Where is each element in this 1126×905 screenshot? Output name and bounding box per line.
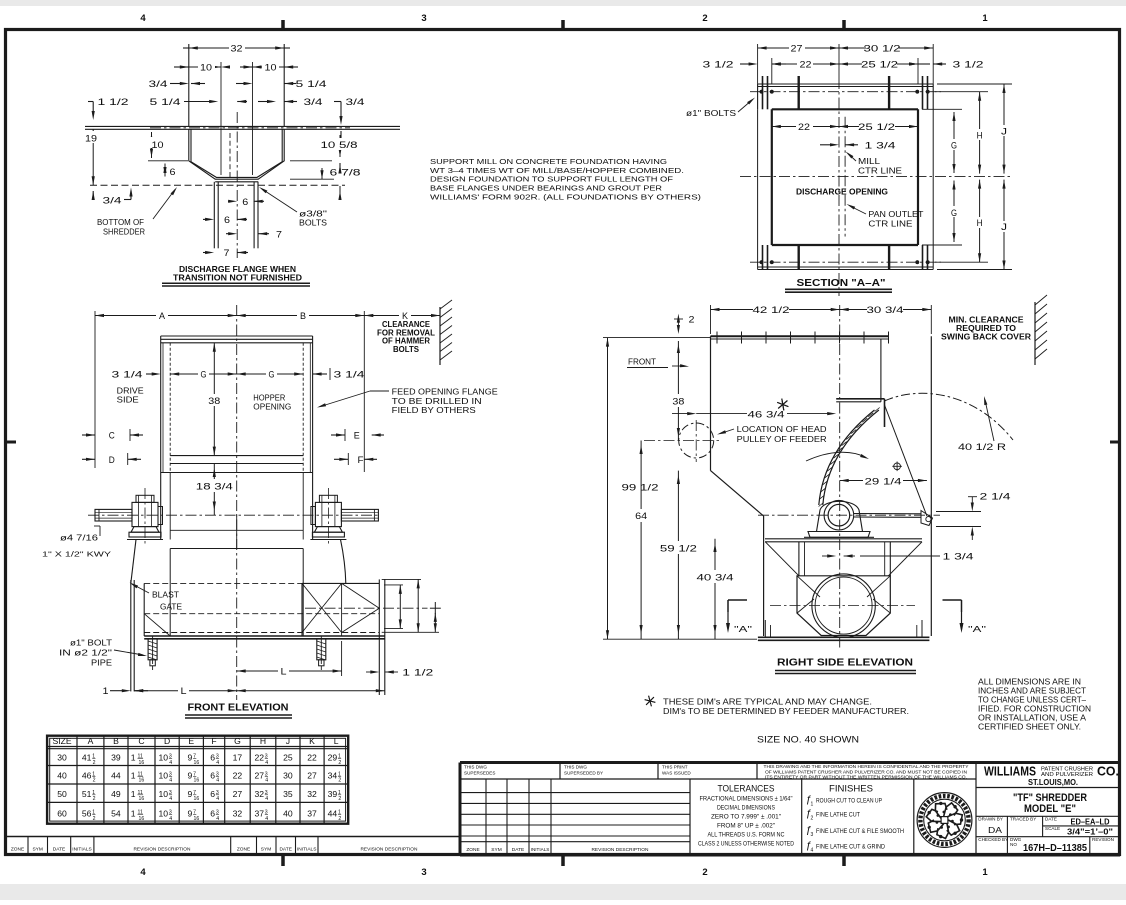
svg-text:SECTION "A–A": SECTION "A–A" [797,278,886,289]
svg-text:27: 27 [307,770,317,780]
svg-text:SCALE: SCALE [1045,826,1060,831]
svg-text:DATE: DATE [512,847,524,853]
svg-text:"A": "A" [968,624,986,634]
svg-text:HOPPER: HOPPER [253,394,285,403]
svg-text:J: J [1001,222,1007,232]
svg-text:SUPERSEDED BY: SUPERSEDED BY [564,770,603,775]
svg-text:MILL: MILL [858,157,881,166]
svg-text:CO.: CO. [1097,763,1119,778]
svg-text:A: A [159,311,165,321]
svg-text:3: 3 [421,13,426,24]
svg-text:BOTTOM OF: BOTTOM OF [97,217,144,227]
svg-text:AND PULVERIZER: AND PULVERIZER [1041,772,1093,778]
svg-text:29 1/4: 29 1/4 [865,476,902,486]
svg-text:37: 37 [307,809,317,819]
svg-text:39: 39 [111,753,121,763]
svg-text:H: H [977,218,983,228]
svg-text:10: 10 [200,63,212,73]
svg-text:4: 4 [140,13,146,24]
svg-text:3/4: 3/4 [149,79,168,89]
svg-text:FINE LATHE CUT & FILE SMOOTH: FINE LATHE CUT & FILE SMOOTH [816,829,904,835]
svg-text:REVISION: REVISION [1092,837,1114,842]
svg-text:1: 1 [103,686,109,696]
svg-text:C: C [138,736,144,746]
svg-text:4: 4 [169,816,172,822]
svg-text:ZONE: ZONE [11,847,24,853]
svg-text:GATE: GATE [160,603,183,612]
svg-text:D: D [164,736,170,746]
svg-text:10: 10 [159,789,169,799]
svg-text:FIELD BY OTHERS: FIELD BY OTHERS [392,406,477,415]
svg-text:G: G [951,208,957,218]
svg-text:C: C [109,431,115,441]
svg-text:B: B [300,311,306,321]
svg-text:L: L [281,667,287,677]
svg-text:REVISION DESCRIPTION: REVISION DESCRIPTION [133,847,191,853]
svg-text:3/4"=1’–0": 3/4"=1’–0" [1067,826,1113,836]
svg-text:38: 38 [208,396,220,406]
svg-text:54: 54 [111,809,121,819]
svg-text:DATE: DATE [53,847,65,853]
svg-text:27: 27 [233,789,243,799]
svg-text:THIS DRAWING AND THE INFORMATI: THIS DRAWING AND THE INFORMATION HEREIN … [764,764,969,769]
svg-text:2: 2 [338,778,341,784]
svg-text:22: 22 [307,753,317,763]
svg-text:SYM: SYM [261,847,271,853]
svg-text:16: 16 [139,816,145,822]
svg-text:FINE LATHE CUT: FINE LATHE CUT [816,813,860,819]
svg-text:49: 49 [111,789,121,799]
svg-text:DATE: DATE [279,847,291,853]
svg-text:42 1/2: 42 1/2 [753,305,790,315]
svg-text:44: 44 [328,809,338,819]
svg-text:41: 41 [82,753,92,763]
svg-text:2: 2 [338,816,341,822]
svg-text:4: 4 [265,778,268,784]
svg-text:3: 3 [811,832,814,838]
svg-text:LOCATION OF HEAD: LOCATION OF HEAD [737,424,827,434]
svg-text:G: G [951,141,957,151]
svg-text:6: 6 [210,770,215,780]
svg-text:64: 64 [635,511,647,521]
svg-text:CTR LINE: CTR LINE [858,167,903,176]
svg-text:25: 25 [283,753,293,763]
svg-text:CLASS 2 UNLESS OTHERWISE NOTED: CLASS 2 UNLESS OTHERWISE NOTED [698,841,795,847]
svg-text:DATE: DATE [1045,817,1057,822]
svg-text:16: 16 [194,816,200,822]
svg-text:4: 4 [265,760,268,766]
svg-text:1" X 1/2" KWY: 1" X 1/2" KWY [42,550,111,559]
svg-text:32: 32 [233,809,243,819]
svg-text:SIZE NO. 40 SHOWN: SIZE NO. 40 SHOWN [757,735,859,745]
svg-text:1: 1 [982,13,988,24]
svg-text:99 1/2: 99 1/2 [622,483,659,493]
svg-text:16: 16 [194,778,200,784]
svg-text:L: L [181,686,187,696]
svg-text:THIS DWG: THIS DWG [564,764,587,769]
svg-text:ALL THREADS U.S. FORM NC: ALL THREADS U.S. FORM NC [708,832,786,838]
svg-text:46: 46 [82,770,92,780]
svg-text:10: 10 [159,753,169,763]
svg-text:32: 32 [307,789,317,799]
svg-text:51: 51 [82,789,92,799]
svg-text:1 1/2: 1 1/2 [98,97,129,107]
svg-text:4: 4 [140,867,146,878]
svg-text:22: 22 [233,770,243,780]
svg-text:PAN OUTLET: PAN OUTLET [868,210,923,219]
svg-text:BOLTS: BOLTS [299,218,327,228]
svg-text:ø1" BOLTS: ø1" BOLTS [686,109,737,118]
svg-text:27: 27 [791,44,803,54]
svg-text:16: 16 [194,796,200,802]
svg-text:3 1/4: 3 1/4 [112,370,143,380]
svg-text:3 1/2: 3 1/2 [953,60,984,70]
svg-text:6: 6 [224,215,230,225]
svg-text:ST.LOUIS,MO.: ST.LOUIS,MO. [1028,778,1078,787]
svg-text:38: 38 [672,397,684,407]
svg-text:1: 1 [131,753,136,763]
svg-text:THIS PRINT: THIS PRINT [662,764,688,769]
svg-text:56: 56 [82,809,92,819]
svg-text:L: L [334,736,339,746]
svg-text:E: E [354,431,360,441]
svg-text:22: 22 [254,753,264,763]
svg-text:INITIALS: INITIALS [72,847,91,853]
svg-text:2: 2 [93,816,96,822]
svg-text:J: J [1001,127,1007,137]
svg-text:1 1/2: 1 1/2 [402,668,433,678]
svg-text:32: 32 [254,789,264,799]
svg-text:THESE DIM's ARE TYPICAL AND MA: THESE DIM's ARE TYPICAL AND MAY CHANGE. [663,698,872,707]
svg-text:6: 6 [242,197,248,207]
svg-text:37: 37 [254,809,264,819]
svg-text:FRACTIONAL DIMENSIONS ± 1/64": FRACTIONAL DIMENSIONS ± 1/64" [700,797,793,803]
svg-text:10: 10 [159,770,169,780]
svg-text:2: 2 [702,13,707,24]
svg-text:22: 22 [798,122,810,132]
svg-text:2 1/4: 2 1/4 [980,492,1011,502]
svg-text:SWING BACK COVER: SWING BACK COVER [941,333,1031,342]
svg-text:9: 9 [188,809,193,819]
svg-text:TO BE DRILLED IN: TO BE DRILLED IN [392,397,482,406]
svg-text:1: 1 [131,809,136,819]
svg-text:6: 6 [210,789,215,799]
svg-text:FEED OPENING FLANGE: FEED OPENING FLANGE [392,388,499,397]
svg-text:3 1/2: 3 1/2 [703,60,734,70]
svg-text:10: 10 [152,140,164,150]
svg-text:J: J [286,736,290,746]
svg-text:40: 40 [283,809,293,819]
svg-text:25 1/2: 25 1/2 [858,122,895,132]
svg-text:ZONE: ZONE [466,847,479,853]
svg-text:32: 32 [231,44,243,54]
svg-text:40 3/4: 40 3/4 [697,573,734,583]
svg-text:THIS DWG: THIS DWG [464,764,487,769]
svg-text:16: 16 [139,760,145,766]
svg-text:DIM's TO BE DETERMINED BY FEED: DIM's TO BE DETERMINED BY FEEDER MANUFAC… [663,707,909,716]
svg-text:3 1/4: 3 1/4 [334,370,365,380]
svg-text:1: 1 [131,789,136,799]
svg-text:H: H [977,131,983,141]
svg-text:22: 22 [800,60,812,70]
svg-text:4: 4 [169,760,172,766]
svg-text:50: 50 [57,789,67,799]
svg-text:2: 2 [338,760,341,766]
svg-text:1 3/4: 1 3/4 [943,552,974,562]
svg-text:OF WILLIAMS PATENT CRUSHER AND: OF WILLIAMS PATENT CRUSHER AND PULVERIZE… [765,769,967,774]
svg-text:SUPPORT MILL ON CONCRETE FOUND: SUPPORT MILL ON CONCRETE FOUNDATION HAVI… [430,157,667,166]
svg-text:F: F [358,455,365,465]
svg-text:9: 9 [188,770,193,780]
svg-text:35: 35 [283,789,293,799]
svg-text:RIGHT SIDE ELEVATION: RIGHT SIDE ELEVATION [777,658,913,669]
svg-text:DESIGN FOUNDATION TO SUPPORT F: DESIGN FOUNDATION TO SUPPORT FULL LENGTH… [430,175,673,184]
svg-text:BOLTS: BOLTS [393,345,419,354]
svg-text:TRANSITION NOT FURNISHED: TRANSITION NOT FURNISHED [173,272,302,282]
svg-text:WILLIAMS' FORM 902R. (ALL FOUN: WILLIAMS' FORM 902R. (ALL FOUNDATIONS BY… [430,192,702,201]
svg-text:3/4: 3/4 [304,97,323,107]
svg-text:ZONE: ZONE [237,847,250,853]
svg-text:CTR LINE: CTR LINE [868,220,913,229]
svg-text:H: H [260,736,266,746]
svg-text:44: 44 [111,770,121,780]
svg-text:K: K [309,736,315,746]
svg-text:6: 6 [170,167,176,177]
svg-text:DECIMAL DIMENSIONS: DECIMAL DIMENSIONS [717,805,775,811]
svg-text:A: A [88,736,94,746]
svg-text:SYM: SYM [32,847,42,853]
svg-text:3/4: 3/4 [103,196,122,206]
svg-text:F: F [211,736,216,746]
svg-text:B: B [113,736,119,746]
svg-text:4: 4 [216,778,219,784]
svg-text:2: 2 [811,816,814,822]
svg-text:FRONT ELEVATION: FRONT ELEVATION [188,703,289,714]
svg-text:INITIALS: INITIALS [531,847,550,852]
svg-text:REVISION DESCRIPTION: REVISION DESCRIPTION [591,847,649,853]
svg-text:40 1/2 R: 40 1/2 R [958,442,1007,452]
svg-text:4: 4 [169,778,172,784]
svg-text:E: E [188,736,194,746]
svg-text:25 1/2: 25 1/2 [861,60,898,70]
svg-text:4: 4 [811,848,814,854]
svg-text:19: 19 [85,134,97,144]
svg-text:FINE LATHE CUT & GRIND: FINE LATHE CUT & GRIND [816,845,886,851]
svg-text:2: 2 [338,796,341,802]
svg-text:30 3/4: 30 3/4 [867,305,904,315]
svg-text:1 3/4: 1 3/4 [865,141,896,151]
svg-text:27: 27 [254,770,264,780]
svg-text:G: G [234,736,241,746]
svg-text:4: 4 [216,816,219,822]
svg-text:ZERO TO 7.999" ± .001": ZERO TO 7.999" ± .001" [711,814,781,820]
svg-text:5 1/4: 5 1/4 [150,97,181,107]
svg-text:6: 6 [210,753,215,763]
svg-text:4: 4 [265,796,268,802]
svg-text:16: 16 [139,796,145,802]
svg-text:D: D [109,455,115,465]
svg-text:2: 2 [93,778,96,784]
svg-text:ROUGH CUT TO CLEAN UP: ROUGH CUT TO CLEAN UP [816,799,882,805]
svg-text:WAS ISSUED: WAS ISSUED [662,770,691,775]
svg-text:59 1/2: 59 1/2 [660,544,697,554]
svg-text:6 7/8: 6 7/8 [330,168,361,178]
svg-text:NO: NO [1010,842,1017,847]
svg-text:3/4: 3/4 [346,97,365,107]
svg-text:DA: DA [988,825,1002,835]
svg-text:BLAST: BLAST [152,591,179,600]
svg-text:G: G [201,370,207,380]
svg-text:REVISION DESCRIPTION: REVISION DESCRIPTION [360,847,418,853]
svg-text:4: 4 [216,796,219,802]
svg-text:30: 30 [283,770,293,780]
svg-text:WT 3–4 TIMES WT OF MILL/BASE/H: WT 3–4 TIMES WT OF MILL/BASE/HOPPER COMB… [430,166,684,175]
svg-text:16: 16 [139,778,145,784]
svg-text:4: 4 [265,816,268,822]
svg-text:TRACED BY: TRACED BY [1010,817,1036,822]
svg-text:167H–D–11385: 167H–D–11385 [1023,843,1087,854]
svg-text:40: 40 [57,770,67,780]
svg-text:7: 7 [224,248,230,258]
svg-text:5 1/4: 5 1/4 [296,79,327,89]
svg-text:SYM: SYM [491,847,501,853]
svg-text:17: 17 [233,753,243,763]
svg-text:ITS ENTIRETY OR PART WITHOUT T: ITS ENTIRETY OR PART WITHOUT THE WRITTEN… [765,775,967,780]
svg-text:2: 2 [93,760,96,766]
svg-text:OPENING: OPENING [253,403,291,412]
svg-text:39: 39 [328,789,338,799]
svg-text:60: 60 [57,809,67,819]
svg-text:FINISHES: FINISHES [829,784,873,795]
svg-text:PULLEY OF FEEDER: PULLEY OF FEEDER [737,434,827,444]
svg-text:1: 1 [982,867,988,878]
svg-text:2: 2 [702,867,707,878]
svg-text:CERTIFIED SHEET ONLY.: CERTIFIED SHEET ONLY. [978,722,1081,732]
svg-text:6: 6 [210,809,215,819]
svg-text:MODEL "E": MODEL "E" [1024,803,1076,815]
svg-text:DRIVE: DRIVE [117,387,145,396]
svg-text:3: 3 [421,867,426,878]
svg-text:BASE FLANGES UNDER BEARINGS AN: BASE FLANGES UNDER BEARINGS AND GROUT PE… [430,184,663,193]
svg-text:FROM 8" UP ± .002": FROM 8" UP ± .002" [717,823,775,829]
svg-text:"A": "A" [734,624,752,634]
svg-text:30 1/2: 30 1/2 [864,44,901,54]
svg-text:WILLIAMS: WILLIAMS [984,763,1036,778]
svg-text:PIPE: PIPE [91,659,113,668]
svg-text:7: 7 [276,229,282,239]
svg-text:4: 4 [169,796,172,802]
svg-text:2: 2 [689,315,695,325]
svg-text:SHREDDER: SHREDDER [103,227,145,237]
svg-text:29: 29 [328,753,338,763]
svg-text:ø1" BOLT: ø1" BOLT [70,639,112,648]
svg-text:10: 10 [265,63,277,73]
svg-text:DISCHARGE OPENING: DISCHARGE OPENING [796,187,888,197]
svg-text:46 3/4: 46 3/4 [748,409,785,419]
svg-text:18 3/4: 18 3/4 [196,482,233,492]
svg-text:9: 9 [188,753,193,763]
svg-text:FRONT: FRONT [628,358,656,367]
svg-text:2: 2 [93,796,96,802]
svg-text:9: 9 [188,789,193,799]
svg-text:SUPERSEDES: SUPERSEDES [464,770,495,775]
svg-text:30: 30 [57,753,67,763]
svg-text:16: 16 [194,760,200,766]
svg-text:CHECKED BY: CHECKED BY [978,837,1008,842]
svg-text:34: 34 [328,770,338,780]
svg-text:IN ø2 1/2": IN ø2 1/2" [59,649,112,658]
svg-text:10: 10 [159,809,169,819]
svg-text:SIDE: SIDE [117,396,140,405]
svg-text:4: 4 [216,760,219,766]
svg-text:10 5/8: 10 5/8 [321,140,358,150]
svg-text:ø4 7/16: ø4 7/16 [60,534,99,543]
svg-text:SIZE: SIZE [52,736,71,746]
svg-text:DRAWN BY: DRAWN BY [978,817,1003,822]
svg-text:INITIALS: INITIALS [297,847,316,853]
svg-text:TOLERANCES: TOLERANCES [718,784,775,795]
svg-text:1: 1 [131,770,136,780]
svg-text:G: G [269,370,275,380]
